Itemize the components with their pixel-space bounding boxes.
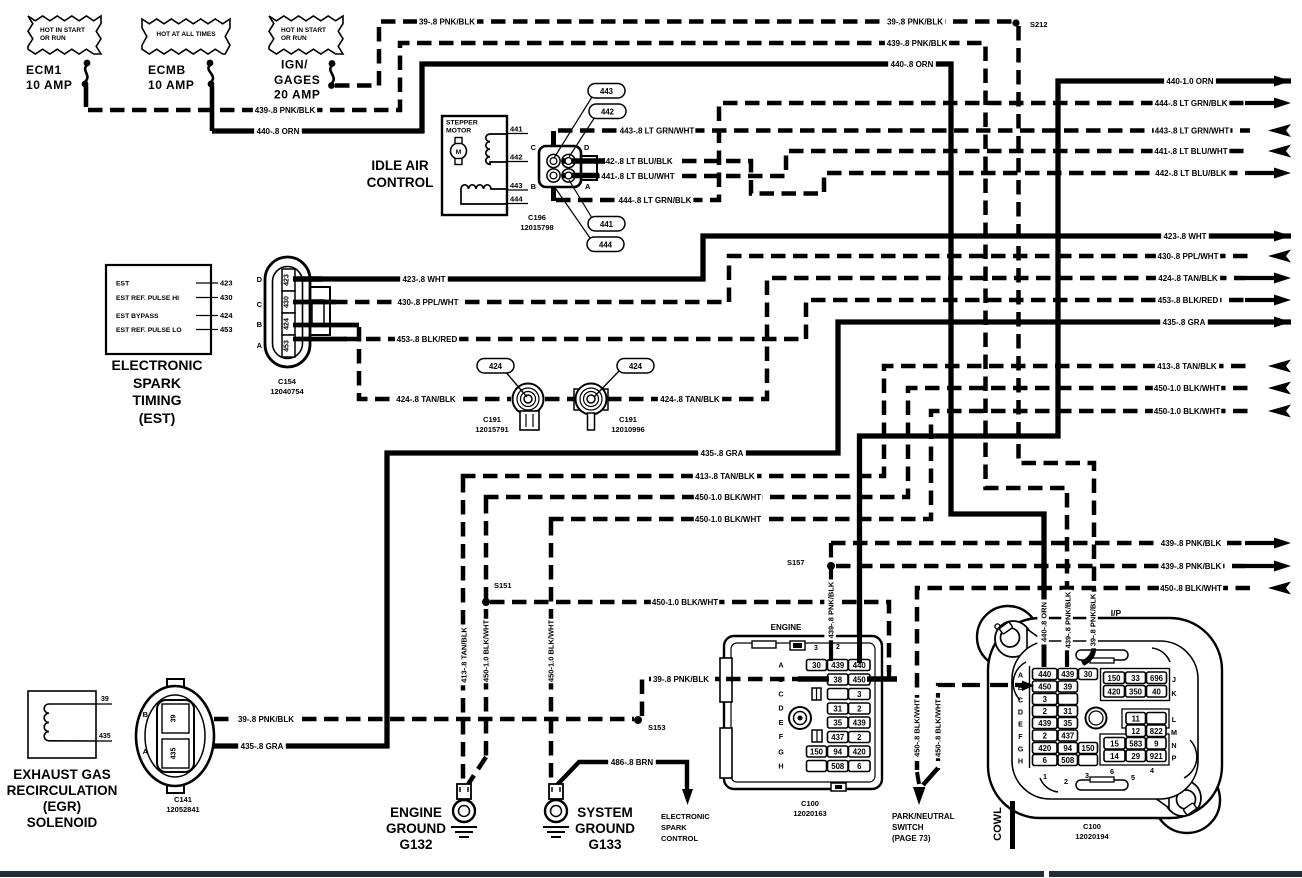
svg-text:39: 39 — [1063, 683, 1072, 692]
svg-text:CONTROL: CONTROL — [367, 175, 434, 190]
svg-text:G: G — [1018, 745, 1024, 754]
svg-text:D: D — [1018, 708, 1023, 717]
svg-text:696: 696 — [1150, 674, 1164, 683]
svg-text:EXHAUST GAS: EXHAUST GAS — [13, 767, 111, 782]
svg-text:20 AMP: 20 AMP — [274, 88, 321, 102]
svg-text:H: H — [1018, 757, 1023, 766]
svg-text:SOLENOID: SOLENOID — [27, 815, 98, 830]
svg-text:2: 2 — [1043, 707, 1048, 716]
svg-text:EST BYPASS: EST BYPASS — [116, 313, 159, 320]
svg-text:2: 2 — [1064, 777, 1068, 786]
svg-text:15: 15 — [1110, 739, 1119, 748]
svg-text:435: 435 — [171, 748, 178, 760]
svg-text:12020194: 12020194 — [1075, 832, 1109, 841]
svg-text:C: C — [778, 690, 783, 699]
svg-text:6: 6 — [1110, 767, 1114, 776]
svg-text:N: N — [1171, 741, 1176, 750]
svg-text:SYSTEM: SYSTEM — [577, 805, 633, 820]
svg-text:STEPPER: STEPPER — [446, 120, 478, 127]
svg-text:420: 420 — [1038, 744, 1052, 753]
svg-text:150: 150 — [1081, 744, 1095, 753]
svg-text:ENGINE: ENGINE — [390, 805, 442, 820]
svg-text:583: 583 — [1129, 739, 1143, 748]
svg-text:6: 6 — [857, 762, 862, 771]
svg-text:442: 442 — [601, 108, 615, 117]
svg-text:35: 35 — [1063, 719, 1072, 728]
svg-text:5: 5 — [1131, 773, 1135, 782]
svg-text:440-.8 ORN: 440-.8 ORN — [1040, 602, 1049, 642]
svg-text:439-.8 PNK/BLK: 439-.8 PNK/BLK — [1161, 539, 1222, 548]
svg-text:350: 350 — [1129, 687, 1143, 696]
svg-text:2: 2 — [1043, 732, 1048, 741]
svg-text:12: 12 — [1131, 727, 1140, 736]
svg-text:(EGR): (EGR) — [43, 799, 81, 814]
svg-text:430: 430 — [220, 293, 233, 302]
svg-text:3: 3 — [1085, 771, 1089, 780]
svg-text:P: P — [1172, 754, 1177, 763]
svg-text:508: 508 — [831, 762, 845, 771]
svg-text:12015798: 12015798 — [520, 223, 553, 232]
svg-text:G132: G132 — [399, 837, 432, 852]
svg-text:413-.8 TAN/BLK: 413-.8 TAN/BLK — [695, 472, 755, 481]
svg-text:3: 3 — [814, 645, 818, 652]
svg-text:3: 3 — [1043, 695, 1048, 704]
svg-text:150: 150 — [1107, 674, 1121, 683]
svg-text:A: A — [257, 341, 263, 350]
svg-text:SPARK: SPARK — [133, 375, 181, 391]
svg-text:430: 430 — [284, 296, 291, 308]
svg-text:443: 443 — [510, 181, 523, 190]
svg-text:9: 9 — [1154, 739, 1159, 748]
svg-text:GAGES: GAGES — [274, 73, 320, 87]
svg-text:CONTROL: CONTROL — [661, 834, 698, 843]
svg-text:439-.8 PNK/BLK: 439-.8 PNK/BLK — [827, 581, 836, 638]
svg-text:440-1.0 ORN: 440-1.0 ORN — [1166, 77, 1213, 86]
svg-text:A: A — [1018, 671, 1023, 680]
svg-text:C: C — [257, 300, 263, 309]
svg-text:A: A — [143, 747, 149, 756]
svg-text:444: 444 — [510, 195, 523, 204]
svg-text:435-.8 GRA: 435-.8 GRA — [241, 742, 284, 751]
svg-text:C191: C191 — [483, 415, 501, 424]
svg-text:435: 435 — [99, 733, 111, 740]
svg-text:822: 822 — [1150, 727, 1164, 736]
svg-text:453: 453 — [220, 325, 233, 334]
svg-text:B: B — [531, 182, 537, 191]
svg-text:12010996: 12010996 — [611, 425, 644, 434]
svg-text:450-1.0 BLK/WHT: 450-1.0 BLK/WHT — [1154, 407, 1220, 416]
svg-text:EST: EST — [116, 281, 130, 288]
svg-text:441: 441 — [510, 125, 523, 134]
svg-text:33: 33 — [1131, 674, 1140, 683]
svg-text:C154: C154 — [278, 377, 297, 386]
svg-text:HOT IN START: HOT IN START — [281, 27, 326, 34]
svg-text:30: 30 — [812, 661, 821, 670]
svg-text:ECM1: ECM1 — [26, 63, 62, 77]
svg-text:39: 39 — [101, 696, 109, 703]
svg-text:39-.8 PNK/BLK: 39-.8 PNK/BLK — [887, 17, 943, 26]
svg-text:150: 150 — [810, 748, 824, 757]
svg-text:HOT IN START: HOT IN START — [40, 27, 85, 34]
svg-text:439-.8 PNK/BLK: 439-.8 PNK/BLK — [1161, 562, 1222, 571]
svg-text:420: 420 — [1107, 687, 1121, 696]
svg-text:D: D — [778, 704, 783, 713]
svg-text:441-.8 LT BLU/WHT: 441-.8 LT BLU/WHT — [601, 172, 674, 181]
svg-text:31: 31 — [1063, 707, 1072, 716]
svg-text:S153: S153 — [648, 723, 666, 732]
svg-text:450-1.0 BLK/WHT: 450-1.0 BLK/WHT — [1154, 384, 1220, 393]
svg-text:D: D — [584, 143, 590, 152]
svg-text:2: 2 — [836, 644, 840, 651]
svg-text:444: 444 — [599, 241, 613, 250]
svg-text:486-.8 BRN: 486-.8 BRN — [611, 758, 653, 767]
svg-text:453: 453 — [284, 340, 291, 352]
svg-text:C100: C100 — [1083, 822, 1101, 831]
svg-text:K: K — [1171, 689, 1177, 698]
svg-text:1: 1 — [1043, 772, 1047, 781]
svg-text:EST REF. PULSE LO: EST REF. PULSE LO — [116, 327, 182, 334]
svg-text:S151: S151 — [494, 581, 512, 590]
svg-text:E: E — [779, 718, 784, 727]
svg-text:442: 442 — [510, 153, 523, 162]
svg-text:HOT AT ALL TIMES: HOT AT ALL TIMES — [156, 31, 216, 38]
svg-text:31: 31 — [833, 705, 842, 714]
svg-text:439: 439 — [831, 661, 845, 670]
svg-text:450-1.0 BLK/WHT: 450-1.0 BLK/WHT — [547, 620, 556, 683]
svg-text:453-.8 BLK/RED: 453-.8 BLK/RED — [1158, 296, 1219, 305]
svg-text:M: M — [456, 149, 461, 156]
svg-text:11: 11 — [1132, 714, 1141, 723]
svg-text:RECIRCULATION: RECIRCULATION — [7, 783, 118, 798]
svg-text:423-.8 WHT: 423-.8 WHT — [1163, 232, 1206, 241]
svg-text:444-.8 LT GRN/BLK: 444-.8 LT GRN/BLK — [619, 196, 692, 205]
svg-text:439-.8 PNK/BLK: 439-.8 PNK/BLK — [255, 106, 316, 115]
svg-text:OR RUN: OR RUN — [281, 35, 307, 42]
svg-text:424: 424 — [629, 362, 643, 371]
svg-text:450-1.0 BLK/WHT: 450-1.0 BLK/WHT — [695, 493, 761, 502]
svg-text:10 AMP: 10 AMP — [148, 78, 195, 92]
svg-text:S157: S157 — [787, 558, 805, 567]
svg-text:453-.8 BLK/RED: 453-.8 BLK/RED — [397, 335, 458, 344]
svg-text:S212: S212 — [1030, 20, 1048, 29]
svg-text:437: 437 — [831, 733, 844, 742]
svg-text:M: M — [1171, 728, 1177, 737]
svg-text:444-.8 LT GRN/BLK: 444-.8 LT GRN/BLK — [1155, 99, 1228, 108]
svg-text:424-.8 TAN/BLK: 424-.8 TAN/BLK — [660, 395, 720, 404]
svg-text:B: B — [143, 710, 149, 719]
svg-text:413-.8 TAN/BLK: 413-.8 TAN/BLK — [460, 627, 469, 683]
svg-text:ELECTRONIC: ELECTRONIC — [661, 812, 710, 821]
svg-text:94: 94 — [833, 748, 842, 757]
svg-text:MOTOR: MOTOR — [446, 128, 471, 135]
svg-text:12040754: 12040754 — [270, 387, 304, 396]
svg-text:443: 443 — [600, 87, 614, 96]
svg-text:IGN/: IGN/ — [281, 58, 308, 72]
svg-text:12020163: 12020163 — [793, 809, 826, 818]
svg-text:450-.8 BLK/WHT: 450-.8 BLK/WHT — [1160, 584, 1222, 593]
svg-text:508: 508 — [1061, 756, 1075, 765]
svg-text:12015791: 12015791 — [475, 425, 508, 434]
svg-text:COWL: COWL — [992, 807, 1004, 841]
svg-text:38: 38 — [833, 676, 842, 685]
svg-text:39-.8 PNK/BLK: 39-.8 PNK/BLK — [1089, 593, 1098, 646]
svg-text:439-.8 PNK/BLK: 439-.8 PNK/BLK — [887, 39, 948, 48]
svg-text:921: 921 — [1150, 752, 1164, 761]
svg-text:12052841: 12052841 — [166, 805, 199, 814]
svg-text:35: 35 — [833, 719, 842, 728]
svg-text:IDLE AIR: IDLE AIR — [371, 158, 429, 173]
svg-text:C: C — [531, 143, 537, 152]
svg-text:2: 2 — [857, 705, 862, 714]
svg-text:439-.8 PNK/BLK: 439-.8 PNK/BLK — [1064, 591, 1073, 648]
svg-text:450-1.0 BLK/WHT: 450-1.0 BLK/WHT — [652, 598, 718, 607]
svg-text:40: 40 — [1152, 687, 1161, 696]
svg-text:H: H — [778, 762, 783, 771]
svg-text:2: 2 — [857, 733, 862, 742]
svg-text:424-.8 TAN/BLK: 424-.8 TAN/BLK — [1158, 274, 1218, 283]
svg-text:SPARK: SPARK — [661, 823, 687, 832]
svg-text:440-.8 ORN: 440-.8 ORN — [257, 127, 300, 136]
svg-text:F: F — [1018, 732, 1023, 741]
svg-text:420: 420 — [853, 748, 867, 757]
svg-text:C: C — [1018, 696, 1023, 705]
svg-text:442-.8 LT BLU/BLK: 442-.8 LT BLU/BLK — [1155, 169, 1227, 178]
svg-text:450-1.0 BLK/WHT: 450-1.0 BLK/WHT — [482, 620, 491, 683]
svg-text:C191: C191 — [619, 415, 637, 424]
svg-text:450: 450 — [853, 676, 867, 685]
svg-text:423: 423 — [284, 274, 291, 286]
svg-text:A: A — [585, 182, 591, 191]
svg-text:443-.8 LT GRN/WHT: 443-.8 LT GRN/WHT — [620, 126, 695, 135]
svg-text:442-.8 LT BLU/BLK: 442-.8 LT BLU/BLK — [601, 157, 673, 166]
svg-text:G133: G133 — [588, 837, 622, 852]
svg-text:39: 39 — [171, 715, 178, 723]
svg-text:424: 424 — [284, 318, 291, 330]
svg-text:450: 450 — [1038, 683, 1052, 692]
svg-text:F: F — [779, 732, 784, 741]
svg-text:413-.8 TAN/BLK: 413-.8 TAN/BLK — [1157, 362, 1217, 371]
svg-text:440: 440 — [1038, 670, 1052, 679]
svg-text:GROUND: GROUND — [575, 821, 635, 836]
svg-text:GROUND: GROUND — [386, 821, 446, 836]
svg-text:C196: C196 — [528, 213, 546, 222]
svg-text:4: 4 — [1150, 766, 1154, 775]
svg-text:423-.8 WHT: 423-.8 WHT — [402, 275, 445, 284]
svg-text:(PAGE 73): (PAGE 73) — [892, 834, 931, 843]
svg-text:29: 29 — [1131, 752, 1140, 761]
svg-text:EST REF. PULSE HI: EST REF. PULSE HI — [116, 295, 179, 302]
svg-text:450-1.0 BLK/WHT: 450-1.0 BLK/WHT — [695, 515, 761, 524]
svg-text:435-.8 GRA: 435-.8 GRA — [701, 449, 744, 458]
svg-text:423: 423 — [220, 279, 233, 288]
svg-text:14: 14 — [1110, 752, 1119, 761]
svg-text:437: 437 — [1061, 732, 1074, 741]
svg-text:OR RUN: OR RUN — [40, 35, 66, 42]
svg-text:G: G — [778, 748, 784, 757]
svg-text:B: B — [257, 320, 263, 329]
svg-text:ECMB: ECMB — [148, 63, 186, 77]
svg-text:C100: C100 — [801, 799, 819, 808]
svg-text:430-.8 PPL/WHT: 430-.8 PPL/WHT — [1158, 252, 1219, 261]
svg-text:450-.8 BLK/WHT: 450-.8 BLK/WHT — [913, 699, 922, 757]
svg-text:439: 439 — [853, 719, 867, 728]
svg-text:30: 30 — [1084, 670, 1093, 679]
svg-text:10 AMP: 10 AMP — [26, 78, 73, 92]
svg-text:I/P: I/P — [1111, 608, 1122, 618]
svg-text:39-.8 PNK/BLK: 39-.8 PNK/BLK — [419, 17, 475, 26]
svg-text:439: 439 — [1038, 719, 1052, 728]
svg-text:435-.8 GRA: 435-.8 GRA — [1163, 318, 1206, 327]
svg-text:D: D — [257, 275, 263, 284]
svg-text:39-.8 PNK/BLK: 39-.8 PNK/BLK — [238, 715, 294, 724]
svg-text:E: E — [1018, 720, 1023, 729]
svg-text:ELECTRONIC: ELECTRONIC — [112, 357, 203, 373]
svg-text:424: 424 — [220, 311, 233, 320]
svg-text:L: L — [1172, 715, 1177, 724]
svg-text:(EST): (EST) — [139, 410, 176, 426]
svg-text:PARK/NEUTRAL: PARK/NEUTRAL — [892, 812, 955, 821]
svg-text:J: J — [1172, 675, 1176, 684]
svg-text:439: 439 — [1061, 670, 1075, 679]
svg-text:3: 3 — [857, 690, 862, 699]
svg-text:A: A — [778, 661, 783, 670]
svg-text:441: 441 — [600, 220, 614, 229]
svg-text:430-.8 PPL/WHT: 430-.8 PPL/WHT — [398, 298, 459, 307]
svg-text:C141: C141 — [174, 795, 192, 804]
svg-text:ENGINE: ENGINE — [771, 623, 802, 632]
svg-text:424-.8 TAN/BLK: 424-.8 TAN/BLK — [396, 395, 456, 404]
svg-text:443-.8 LT GRN/WHT: 443-.8 LT GRN/WHT — [1155, 126, 1230, 135]
svg-text:6: 6 — [1043, 756, 1048, 765]
svg-text:441-.8 LT BLU/WHT: 441-.8 LT BLU/WHT — [1154, 147, 1227, 156]
svg-text:SWITCH: SWITCH — [892, 823, 924, 832]
svg-text:440-.8 ORN: 440-.8 ORN — [891, 60, 934, 69]
svg-text:450-.8 BLK/WHT: 450-.8 BLK/WHT — [934, 699, 943, 757]
svg-text:39-.8 PNK/BLK: 39-.8 PNK/BLK — [653, 675, 709, 684]
svg-text:424: 424 — [489, 362, 503, 371]
svg-text:94: 94 — [1063, 744, 1072, 753]
svg-text:TIMING: TIMING — [133, 392, 182, 408]
